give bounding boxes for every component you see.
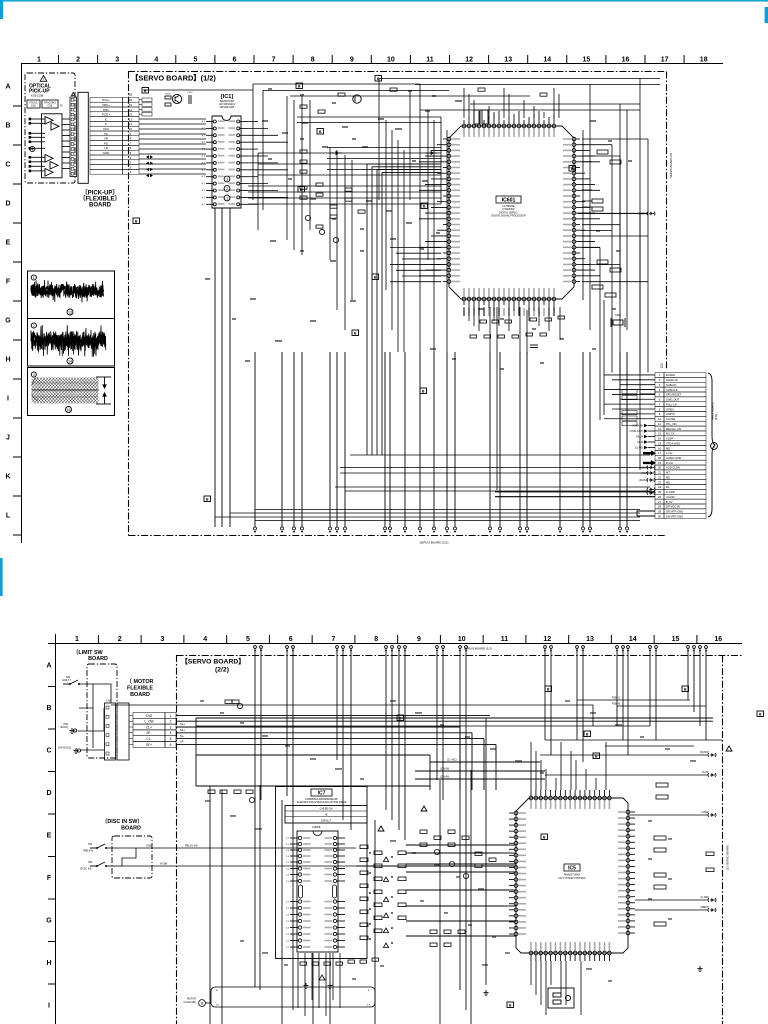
svg-text:3: 3 [170,725,172,729]
waveform box 3 eye pattern [28,368,115,416]
svg-text:AUDIO GND: AUDIO GND [666,456,681,460]
svg-text:11: 11 [658,422,661,426]
main board label [711,402,715,420]
motor table wires right [176,715,713,790]
CN601 bottom bold wires [495,492,655,497]
svg-text:1: 1 [75,636,79,643]
sheet2 zener diodes [378,746,732,831]
svg-text:CL-MO: CL-MO [635,447,643,450]
IC1 right wires extended [248,122,288,205]
svg-text:DIGITAL SIGNAL PROCESSOR: DIGITAL SIGNAL PROCESSOR [491,215,526,218]
svg-text:B: B [5,123,10,130]
svg-text:L-: L- [216,988,218,992]
svg-text:SLED/SP/FOCUS/TRACKING MOTOR D: SLED/SP/FOCUS/TRACKING MOTOR DRIVE [297,801,347,804]
tracking coil box [42,100,58,108]
svg-text:3: 3 [226,177,228,181]
CN601 connector table [655,373,706,519]
motor signal out labels [180,722,185,726]
op-amp C [45,155,53,163]
IC7 body slots [299,885,337,898]
CN601 row entry wires [604,375,655,419]
sheet2 board boundary left [176,655,178,1024]
registration mark top-right [765,7,768,23]
sheet1 column ruler line [21,63,723,65]
optical pick-up boundary [25,73,75,183]
svg-text:16: 16 [622,57,630,64]
svg-text:E: E [61,104,63,108]
svg-text:G: G [46,918,52,925]
waveform box 1 [28,271,115,319]
svg-text:13: 13 [129,113,133,117]
ref box S3 [757,711,764,717]
svg-text:R/L CK: R/L CK [666,432,675,436]
svg-text:X601: X601 [615,313,622,317]
svg-text:D: D [5,201,10,208]
svg-text:CAB BE OM: CAB BE OM [320,808,333,811]
svg-text:(CNM-IN): (CNM-IN) [632,425,643,428]
svg-text:B: B [300,188,303,192]
registration mark mid-left [0,558,3,596]
svg-text:C: C [46,748,51,755]
svg-text:4: 4 [170,731,172,735]
svg-text:BOARD: BOARD [88,656,108,662]
IC5 label [564,864,580,872]
svg-text:A: A [5,84,10,91]
ref box S7 [507,1002,514,1008]
svg-text:TRACKING: TRACKING [44,102,56,105]
svg-text:5: 5 [246,636,250,643]
ref box S8 [593,753,600,759]
IC7 outer wire frame [276,787,368,959]
svg-text:E: E [47,833,52,840]
svg-text:J: J [6,435,10,442]
svg-text:B: B [374,275,377,279]
svg-text:B: B [509,1003,512,1007]
IC5 bottom cluster [548,988,574,1008]
svg-text:BOARD: BOARD [130,692,150,698]
bottom terminal symbols [254,527,629,533]
long verticals to bottom bus [215,352,627,527]
ref box S1 [545,686,552,692]
svg-text:DR VCC IN: DR VCC IN [666,505,680,509]
sheet2 left long verticals [196,718,486,1024]
IC601 body [449,126,574,299]
sheet2 caption servo board 1/2 [464,647,492,651]
svg-text:(SQSO): (SQSO) [700,750,709,754]
svg-text:H: H [46,960,51,967]
bundle loop lower corner wires [390,248,441,282]
flex signal table [90,97,139,174]
right edge terminals CLK XLT DATA [647,212,655,216]
bundle loop wires mid [367,164,441,455]
svg-text:15: 15 [583,57,591,64]
svg-text:DR MTR GND: DR MTR GND [666,510,683,514]
svg-text:XLDP: XLDP [666,437,673,441]
cluster mid arrows [330,151,342,154]
svg-text:SUB-CD: SUB-CD [666,383,676,387]
ref box B10 [352,330,359,336]
ref box B8 [421,203,428,209]
photo detector inner box [42,114,63,178]
svg-text:3: 3 [161,636,165,643]
svg-text:B: B [422,389,425,393]
op-amp A [45,117,53,125]
svg-text:15: 15 [129,93,133,97]
svg-text:F: F [105,122,107,126]
svg-text:B: B [144,89,147,93]
sheet2 board boundary top [177,655,743,657]
svg-text:CN2: CN2 [146,714,153,718]
Q1 transistor [172,94,181,103]
svg-text:B: B [319,130,322,134]
svg-text:AUD CLDN: AUD CLDN [666,466,680,470]
IC7 left pins [286,836,311,949]
svg-text:SF+: SF+ [146,743,152,747]
svg-text:C: C [5,162,10,169]
svg-text:B: B [595,754,598,758]
CN601 source label boxes [622,390,655,426]
IC1 circled pads [224,176,230,182]
svg-text:(XLT): (XLT) [641,471,648,475]
parts above IC601 [300,88,547,113]
svg-text:17: 17 [658,451,662,455]
tiny value labels sheet2 [200,700,696,982]
svg-text:R-CH: R-CH [666,461,673,465]
svg-text:(D-SC IN): (D-SC IN) [80,867,92,871]
ref box B1 [142,88,149,94]
pick-up left squares lower [29,156,32,172]
C601 C602 top capacitors [474,110,488,124]
svg-text:DR MTR GND: DR MTR GND [666,514,683,518]
IC7 body [297,831,338,952]
motor load symbol [199,1000,206,1007]
IC601 right pins [563,137,600,283]
svg-text:26: 26 [658,495,662,499]
svg-text:(LIM-T): (LIM-T) [62,678,71,682]
svg-text:15: 15 [672,636,680,643]
IC7 upper info box [285,806,367,824]
sheet1 row ruler line [21,64,23,544]
svg-text:(LOAD MD): (LOAD MD) [184,1001,197,1004]
sheet2 right edge vertical label [726,845,730,870]
svg-text:E: E [105,117,107,121]
svg-text:2: 2 [226,187,228,191]
svg-text:25: 25 [658,490,662,494]
ref box B6 [372,274,379,280]
svg-text:18: 18 [700,57,708,64]
gnd IC7 bottom [327,983,332,988]
svg-text:B: B [547,687,550,691]
diamond arrow marks [146,155,153,177]
disc in switch [90,862,107,867]
ref box S2 [682,686,689,692]
svg-text:5: 5 [193,57,197,64]
sheet2 wires to right edge [540,755,708,910]
svg-text:D-GND: D-GND [666,490,675,494]
svg-text:IC601: IC601 [502,198,516,204]
svg-text:L+: L+ [367,1003,370,1007]
svg-text:MD: MD [666,480,670,484]
laser circle [30,146,35,151]
sheet2 column numbers [75,635,722,643]
svg-text:L-CH: L-CH [666,451,672,455]
svg-text:(SP-HOLD): (SP-HOLD) [58,747,71,750]
svg-text:11: 11 [501,636,509,643]
sheet1 servo board boundary top [128,71,666,73]
svg-text:(CN): (CN) [714,414,718,420]
svg-text:L+: L+ [216,1003,219,1007]
svg-text:MD: MD [666,475,670,479]
svg-text:28: 28 [658,505,662,509]
svg-text:KSS-213B: KSS-213B [31,93,43,97]
svg-text:2: 2 [76,57,80,64]
svg-text:14: 14 [129,108,133,112]
svg-text:+B: +B [325,814,328,816]
svg-text:2: 2 [33,324,35,328]
motor connector 2 [117,703,129,760]
eye pattern arrows [96,377,111,404]
IC5 right pins [618,810,635,935]
gnd sw blkd3 [69,728,74,733]
svg-text:B: B [298,84,301,88]
svg-text:6: 6 [170,743,172,747]
crystal X601 [611,318,625,327]
svg-text:14: 14 [68,359,72,363]
down relay switch [90,844,107,849]
CN3 label [106,700,111,703]
svg-text:IC5: IC5 [568,866,576,872]
sheet2 cn-in labels [440,767,449,771]
flex end boxes [139,98,152,116]
svg-text:7: 7 [272,57,276,64]
svg-text:16: 16 [129,98,133,102]
svg-text:〔FLEXIBLE〕: 〔FLEXIBLE〕 [79,195,120,203]
svg-text:14: 14 [543,57,551,64]
svg-text:SERVO BOARD (2/2): SERVO BOARD (2/2) [420,541,449,545]
svg-text:SERVO BOARD (1/2): SERVO BOARD (1/2) [464,647,492,651]
IC7 right pins [325,836,346,948]
sheet1 row letters [5,84,21,536]
connector pin squares [71,98,74,175]
pick-up internal wires [31,119,45,171]
ref box B4 [133,218,140,224]
svg-text:23: 23 [658,480,662,484]
sheet2 column ruler line [48,643,742,645]
motor connector 1 [105,703,116,760]
svg-text:(SBDT): (SBDT) [700,905,709,909]
svg-text:2: 2 [118,636,122,643]
registration mark top edge [0,0,768,2]
svg-text:OPEN: OPEN [666,407,674,411]
svg-text:SW: SW [88,860,93,864]
svg-text:GND: GND [146,845,152,848]
svg-text:21: 21 [658,471,662,475]
CN601 diamond terminals [630,424,655,450]
svg-text:SF-: SF- [180,740,185,744]
svg-text:BOARD: BOARD [89,203,112,209]
IC7 cluster gnd triangles and dots [369,852,393,947]
svg-text:20: 20 [658,466,662,470]
IC5 bottom pins [529,942,611,961]
svg-text:CD SYSTEM CONTROL: CD SYSTEM CONTROL [558,877,586,880]
svg-text:3: 3 [33,373,35,377]
sheet1 title SERVO BOARD 1/2 [131,74,216,83]
IC1 label [221,94,234,100]
svg-text:〔DISC IN SW〕: 〔DISC IN SW〕 [102,817,143,825]
svg-text:M: M [201,1002,204,1006]
ref box B11 [420,388,427,394]
sheet1 servo board boundary left [128,72,130,536]
sheet2 title [181,658,245,666]
svg-text:【SERVO BOARD】: 【SERVO BOARD】 [181,658,245,666]
svg-text:COIL: COIL [31,105,37,107]
op-amp B [51,123,59,131]
sheet2 motor load bottom box [211,987,375,1007]
sheet2 top terminal symbols [254,646,708,652]
svg-text:SL-: SL- [180,734,184,738]
IC601 bottom pins [462,288,556,314]
ref box B7 [569,166,576,172]
limit switch S401 [63,680,80,685]
IC7 cluster wires to IC5 [406,845,516,936]
IC5 body [516,798,628,953]
svg-text:B: B [135,219,138,223]
svg-text:13: 13 [586,636,594,643]
svg-text:ML: ML [666,485,670,489]
svg-text:L: L [6,513,11,520]
component cluster below IC601 [470,316,565,338]
svg-text:19: 19 [658,461,662,465]
tiny value labels sheet1 [205,88,632,370]
sheet1 bottom caption [420,541,449,545]
svg-text:SERVO BOARD 2/2: SERVO BOARD 2/2 [669,152,673,178]
svg-text:SLED+CK: SLED+CK [666,378,679,382]
C101 cluster [189,95,191,104]
svg-text:PCG+: PCG+ [102,113,111,117]
svg-text:CLOSE: CLOSE [666,417,675,421]
svg-text:SL+: SL+ [180,722,185,726]
ref box S5 [584,731,591,737]
svg-text:30: 30 [658,514,662,518]
svg-text:H: H [5,357,10,364]
svg-text:5: 5 [170,737,172,741]
optical pick-up label [29,84,51,90]
svg-text:(CMD): (CMD) [701,810,709,814]
svg-text:RLSEN: RLSEN [666,373,675,377]
sens wire [578,213,648,215]
svg-text:CN3: CN3 [106,700,111,703]
CN601 big arrows rows 17 19 [643,450,656,465]
svg-text:LIMITS: LIMITS [666,412,675,416]
svg-text:9: 9 [350,57,354,64]
sheet1 servo board boundary bottom [129,535,667,537]
sheet2 top vertical drop wires [255,648,706,840]
svg-text:!: ! [43,78,44,82]
svg-text:B_5V: B_5V [666,500,673,504]
svg-text:24: 24 [658,485,662,489]
svg-text:1: 1 [33,276,35,280]
IC1 left pins [202,120,217,206]
svg-text:1: 1 [37,57,41,64]
svg-text:SF+: SF+ [180,728,186,732]
pick-up left squares upper [29,118,32,150]
motor flexible board label [127,677,154,685]
svg-text:【SERVO BOARD】(1/2): 【SERVO BOARD】(1/2) [131,74,216,83]
svg-text:SW: SW [88,842,93,846]
wires pick-up to connector [62,119,70,169]
svg-text:L-: L- [368,988,370,992]
svg-text:TRK-: TRK- [103,108,110,112]
svg-text:9: 9 [417,636,421,643]
svg-text:I: I [7,396,9,403]
IC1 right pins [237,120,248,206]
svg-text:6: 6 [289,636,293,643]
IC601 right pin wires to right area [582,139,648,282]
svg-text:13: 13 [68,310,72,314]
svg-text:F: F [47,875,52,882]
Q601 [353,95,361,103]
svg-text:12: 12 [129,117,133,121]
svg-text:(CNM-OUT): (CNM-OUT) [630,430,644,433]
op-amp D [50,162,58,170]
IC601 left pins [419,137,460,283]
svg-text:MECHA_ON: MECHA_ON [666,427,681,431]
IC5 top pins [529,790,611,809]
IC601 label [496,196,521,204]
svg-text:PCG-: PCG- [102,98,110,102]
svg-text:BOARD: BOARD [121,826,141,832]
waveform box 2 [28,319,115,367]
svg-text:A: A [46,663,51,670]
svg-text:18: 18 [658,456,662,460]
svg-text:B: B [586,732,589,736]
svg-text:7: 7 [332,636,336,643]
limit sw wires [78,684,111,750]
svg-text:4: 4 [203,636,207,643]
svg-text:6: 6 [233,57,237,64]
IC5 right label boxes [654,783,668,926]
svg-text:SUB-CLK: SUB-CLK [666,388,678,392]
svg-text:VCC: VCC [103,127,110,131]
pin 1 marker [72,93,76,96]
svg-text:[IC1]: [IC1] [221,94,234,100]
svg-text:16: 16 [67,408,71,412]
ref box B3 [375,76,382,82]
svg-text:E: E [6,240,11,247]
ref box B13 [204,496,211,502]
svg-text:8: 8 [311,57,315,64]
svg-text:〔LIMIT SW: 〔LIMIT SW [73,648,104,656]
sheet1 CN label [660,363,664,368]
IC7 label [311,789,332,797]
svg-text:10: 10 [387,57,395,64]
disc in sw board label [102,817,143,825]
svg-text:(C- MC): (C- MC) [447,758,457,762]
svg-text:B: B [354,331,357,335]
sheet2 horizontal buses [196,718,713,866]
IC7 right resistor column [360,845,382,940]
ref box B9 [317,129,324,135]
svg-text:G: G [5,318,11,325]
svg-text:(CN-IN): (CN-IN) [440,775,449,779]
motor load connecting wires [205,1002,211,1004]
svg-text:14: 14 [629,636,637,643]
svg-text:F550-C: F550-C [612,697,621,700]
ref box B2 [296,83,303,89]
svg-text:B: B [399,716,402,720]
svg-text:BLKD): BLKD) [61,726,69,729]
svg-text:2/2 SERVO BOARD: 2/2 SERVO BOARD [726,845,730,870]
